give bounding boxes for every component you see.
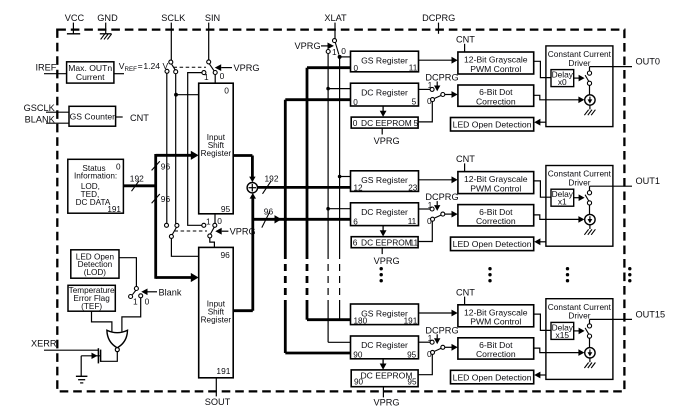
svg-text:95: 95 [407, 350, 417, 359]
svg-text:191: 191 [107, 205, 121, 214]
svg-text:Driver: Driver [568, 311, 590, 321]
svg-text:VPRG: VPRG [374, 256, 400, 266]
wire junction into shift register 1 (serial in) [176, 94, 199, 96]
wire DC EEPROM to DCPRG switch ch15 [418, 354, 432, 375]
wire S1 pole down with junction [174, 74, 178, 224]
svg-text:5: 5 [412, 98, 417, 107]
svg-text:191: 191 [216, 366, 230, 376]
pin SCLK [161, 13, 186, 60]
svg-text:LED Open Detection: LED Open Detection [453, 239, 532, 249]
wire CNT into PWM ch1 [464, 163, 466, 171]
wire VREF from Max OUTn Current [114, 73, 124, 75]
block 6-Bit Dot Correction ch1 [458, 205, 534, 226]
svg-text:Correction: Correction [476, 349, 516, 359]
wire bus vertical split [154, 154, 157, 279]
wire 192-bit bus from Status Information [123, 184, 155, 187]
svg-text:DC Register: DC Register [361, 87, 408, 97]
svg-text:96: 96 [264, 207, 274, 217]
switch S5 (XLAT / VPRG select) [326, 39, 341, 59]
wire shift register 1 bit-95 out to S4 top contact [214, 214, 216, 223]
svg-text:x15: x15 [556, 330, 570, 340]
wire CNT into PWM ch0 [464, 44, 466, 52]
svg-text:11: 11 [408, 217, 417, 226]
svg-text:PWM Control: PWM Control [470, 317, 521, 327]
svg-text:11: 11 [409, 238, 418, 248]
block 6-Bit Dot Correction ch0 [458, 85, 534, 106]
svg-text:XLAT: XLAT [324, 13, 347, 23]
wire DC Register to DCPRG switch ch1 [419, 208, 431, 210]
wire DC EEPROM to DCPRG switch ch1 [418, 221, 432, 242]
svg-text:x0: x0 [558, 77, 567, 87]
svg-text:90: 90 [354, 377, 364, 386]
wire S2 contact-1 bypass down to S4 [188, 73, 202, 226]
svg-text:1: 1 [133, 297, 138, 307]
arrow Blank [141, 289, 157, 296]
block Delay x0 ch0 [551, 70, 574, 87]
wire driver to LED Open Detection ch1 [534, 238, 546, 245]
wire shift register 2 output to adder [233, 193, 256, 311]
memory DC EEPROM ch15 [351, 370, 418, 387]
wire DC Register to DCPRG switch ch0 [419, 88, 431, 90]
block 6-Bit Dot Correction ch15 [458, 338, 534, 359]
switch output enable ch0 [585, 71, 592, 85]
wire CNT into PWM ch15 [464, 297, 466, 305]
svg-text:PWM Control: PWM Control [470, 183, 521, 193]
wire switch to current source ch15 [589, 338, 591, 347]
register U4 Input Shift Register (bits 96-191) [199, 247, 234, 377]
arrow DCPRG ch1 [434, 201, 440, 211]
register GS Register ch0 [351, 51, 419, 73]
pin DCPRG [422, 13, 455, 34]
chip boundary (dashed border) [57, 30, 624, 392]
svg-text:Correction: Correction [476, 96, 516, 106]
svg-text:IREF: IREF [35, 63, 56, 73]
svg-text:DCPRG: DCPRG [422, 13, 455, 23]
block Status Information register [68, 159, 124, 214]
wire S3 pole into shift register 2 [171, 239, 198, 257]
svg-text:DC EEPROM: DC EEPROM [361, 238, 412, 248]
wire Dot Correction to current source ch15 [534, 348, 585, 356]
switch S6 (Blank select) [129, 287, 143, 299]
switch DCPRG select ch1 [430, 207, 445, 221]
register DC Register ch0 [351, 83, 419, 107]
wire 96-bit branch into upper Input Shift Register [156, 151, 199, 160]
switch S1 (SCLK / VREF select) [165, 60, 178, 74]
svg-text:DC Register: DC Register [361, 340, 408, 350]
svg-text:(LOD): (LOD) [84, 268, 107, 277]
block LED Open Detection (LOD) [71, 250, 119, 278]
arrow DC Register to DC EEPROM ch15 [380, 359, 387, 370]
svg-text:0: 0 [354, 64, 359, 73]
svg-text:191: 191 [404, 317, 418, 326]
block Temperature Error Flag (TEF) [68, 285, 115, 311]
svg-text:LED Open Detection: LED Open Detection [453, 372, 532, 382]
svg-text:0: 0 [427, 349, 432, 359]
svg-text:CNT: CNT [456, 287, 475, 297]
svg-text:VPRG: VPRG [373, 398, 399, 408]
block LED Open Detection ch1 [451, 237, 534, 251]
svg-text:GND: GND [97, 13, 118, 23]
svg-text:GS Register: GS Register [361, 308, 408, 318]
wire GS Register to PWM ch15 [419, 310, 458, 317]
wire OUT1 output [590, 186, 633, 190]
svg-text:DC DATA: DC DATA [76, 198, 111, 207]
svg-text:96: 96 [161, 194, 171, 204]
svg-text:Information:: Information: [74, 171, 117, 180]
svg-text:VPRG: VPRG [374, 136, 400, 146]
wire VPRG stub ch1 [381, 248, 383, 254]
current source ch15 [585, 348, 595, 358]
svg-text:0: 0 [353, 118, 358, 128]
svg-text:Driver: Driver [568, 177, 590, 187]
block 12-Bit Grayscale PWM Control ch15 [458, 305, 534, 327]
svg-text:96: 96 [220, 250, 230, 260]
arrow Delay to switch ch1 [574, 194, 585, 201]
svg-text:0: 0 [341, 46, 346, 56]
svg-text:SIN: SIN [205, 13, 220, 23]
svg-text:0: 0 [145, 297, 150, 307]
bus tick 192 (status bus) [132, 181, 140, 191]
wire 96-bit DC data bus [253, 215, 351, 223]
wire CNT output of GS Counter [116, 116, 123, 118]
wire vertical GS data bus to channels 0 and 15 [307, 68, 351, 320]
dashed coupler S3-S4 [175, 230, 208, 232]
pin VPRG (bottom) [373, 387, 399, 408]
svg-text:SCLK: SCLK [161, 13, 186, 23]
wire shift register 1 output to adder [233, 156, 255, 183]
svg-text:1: 1 [204, 72, 209, 82]
svg-text:XERR: XERR [31, 339, 57, 349]
pin GSCLK [24, 103, 69, 113]
switch output enable ch15 [585, 324, 592, 338]
wire GS Register to PWM ch0 [419, 57, 458, 64]
wire PWM Control to Delay ch0 [534, 61, 551, 77]
ground (current source ch15) [584, 358, 595, 368]
svg-text:11: 11 [409, 64, 418, 73]
arrow DC Register to DC EEPROM ch1 [380, 226, 387, 237]
block 12-Bit Grayscale PWM Control ch1 [458, 172, 534, 194]
ground (XERR transistor) [76, 376, 88, 383]
wire 96-bit branch into lower Input Shift Register [156, 273, 199, 282]
switch S2 (SIN / VPRG select) [202, 60, 217, 75]
pin VCC [65, 13, 85, 34]
switch S3 (lower left) [165, 223, 179, 238]
svg-text:1: 1 [428, 333, 433, 343]
pin IREF [35, 63, 66, 74]
wire switch to current source ch0 [589, 85, 591, 94]
block U1 Max. OUTn Current [67, 62, 114, 83]
wire OUT0 output [590, 67, 633, 71]
wire Dot Correction to current source ch1 [534, 215, 585, 223]
svg-text:1: 1 [332, 47, 337, 57]
register DC Register ch15 [351, 336, 419, 360]
wire vertical DC data bus to channels 0 and 15 [285, 100, 350, 353]
arrow Delay to switch ch0 [574, 75, 585, 82]
arrow Delay to switch ch15 [574, 328, 585, 335]
svg-text:Correction: Correction [476, 216, 516, 226]
pin BLANK [25, 115, 69, 125]
pin SOUT [205, 378, 231, 407]
svg-text:VCC: VCC [65, 13, 85, 23]
svg-text:DC EEPROM: DC EEPROM [361, 118, 412, 128]
pin GND [97, 13, 118, 39]
wire GS Register to PWM ch1 [419, 176, 458, 183]
switch S4 (lower right / VPRG select) [202, 223, 217, 238]
transistor Q1 (open-drain XERR) [81, 348, 100, 363]
block Constant Current Driver ch1 [546, 166, 613, 247]
svg-text:CNT: CNT [456, 35, 475, 45]
svg-text:12: 12 [354, 184, 364, 193]
svg-text:1: 1 [206, 217, 211, 227]
svg-text:96: 96 [161, 161, 171, 171]
wire XLAT contact-1 net (DC latch line) [326, 54, 350, 343]
svg-text:0: 0 [224, 86, 229, 96]
svg-text:95: 95 [221, 204, 231, 214]
ground (current source ch1) [584, 225, 595, 235]
wire S2 pole into shift register 1 top [214, 75, 216, 84]
svg-text:Register: Register [201, 149, 232, 158]
svg-text:(TEF): (TEF) [81, 302, 102, 311]
switch output enable ch1 [585, 191, 592, 205]
block Delay x1 ch1 [551, 189, 574, 206]
svg-text:PWM Control: PWM Control [470, 64, 521, 74]
wire 192-bit GS data bus (adder output) [258, 185, 351, 189]
wire PWM Control to Delay ch15 [534, 314, 551, 330]
svg-text:OUT0: OUT0 [636, 57, 661, 67]
wire source to ground [80, 356, 82, 376]
svg-text:VPRG: VPRG [234, 63, 260, 73]
block Constant Current Driver ch15 [546, 299, 613, 380]
block Constant Current Driver ch0 [546, 46, 613, 127]
svg-text:5: 5 [414, 118, 419, 128]
wire PWM Control to Delay ch1 [534, 181, 551, 197]
current source ch0 [585, 95, 595, 105]
svg-text:6: 6 [353, 217, 358, 226]
svg-text:Current: Current [76, 72, 105, 82]
gate U5 NOR (error combine) [107, 330, 128, 351]
bus tick 96 (DC bus) [262, 212, 270, 228]
wire LOD output to switch S6 [119, 258, 136, 287]
dashed coupler S1-S2 [174, 66, 207, 68]
pin XLAT [324, 13, 347, 38]
wire TEF output to NOR gate input [92, 311, 112, 331]
wire switch to current source ch1 [589, 205, 591, 214]
register GS Register ch15 [351, 304, 419, 326]
arrow DC Register to DC EEPROM ch0 [380, 106, 387, 117]
wire XLAT pole net (GS latch line) [338, 57, 351, 320]
svg-text:1: 1 [428, 80, 433, 90]
arrow DCPRG ch15 [434, 334, 440, 344]
wire NOR output to transistor drain [101, 352, 118, 362]
wire DC Register to DCPRG switch ch15 [419, 341, 431, 343]
wire VREF contact down to S3 [166, 73, 168, 223]
svg-text:0: 0 [116, 163, 121, 172]
svg-text:GSCLK: GSCLK [24, 103, 56, 113]
adder (combiner) node [247, 183, 257, 193]
wire VPRG stub ch0 [381, 128, 383, 134]
bus tick 96 (upper branch) [152, 161, 160, 170]
svg-text:VREF = 1.24 V: VREF = 1.24 V [119, 61, 169, 73]
block Delay x15 ch15 [551, 322, 574, 339]
wire OUT15 output [590, 319, 633, 323]
memory DC EEPROM ch1 [351, 237, 418, 248]
bus tick 192 (GS bus) [263, 181, 271, 193]
svg-text:DC EEPROM: DC EEPROM [360, 371, 412, 381]
register GS Register ch1 [351, 171, 419, 193]
svg-text:180: 180 [354, 317, 368, 326]
svg-text:SOUT: SOUT [205, 397, 231, 407]
wire DCPRG pole to Dot Correction ch15 [445, 344, 458, 351]
svg-text:95: 95 [407, 377, 417, 386]
svg-text:x1: x1 [558, 197, 567, 207]
arrow VPRG (top selector) [215, 64, 232, 71]
wire DC EEPROM to DCPRG switch ch0 [418, 101, 432, 122]
svg-text:Register: Register [201, 316, 232, 325]
svg-text:VPRG: VPRG [295, 41, 321, 51]
wire driver to LED Open Detection ch15 [534, 372, 546, 379]
svg-text:OUT1: OUT1 [636, 176, 661, 186]
switch DCPRG select ch0 [430, 87, 445, 101]
register DC Register ch1 [351, 203, 419, 227]
svg-text:192: 192 [130, 174, 144, 184]
svg-text:90: 90 [353, 351, 363, 360]
svg-text:1: 1 [428, 200, 433, 210]
svg-text:GS Counter: GS Counter [70, 112, 116, 122]
wire DCPRG pole to Dot Correction ch0 [445, 91, 458, 98]
pin XERR [31, 339, 98, 351]
svg-text:OUT15: OUT15 [636, 309, 666, 319]
block LED Open Detection ch15 [451, 370, 534, 384]
svg-text:GS Register: GS Register [361, 175, 408, 185]
arrow VPRG (lower selector) [215, 228, 228, 235]
svg-text:192: 192 [265, 173, 279, 183]
wire DCPRG pole to Dot Correction ch1 [445, 211, 458, 218]
svg-text:0: 0 [427, 96, 432, 106]
current source ch1 [585, 214, 595, 224]
svg-text:CNT: CNT [456, 154, 475, 164]
svg-text:6: 6 [353, 238, 358, 248]
block U2 GS Counter [69, 106, 116, 126]
svg-text:DC Register: DC Register [361, 207, 408, 217]
svg-text:Blank: Blank [159, 288, 182, 298]
wire S4 pole into shift register 2 top [210, 238, 215, 247]
svg-text:0: 0 [353, 98, 358, 107]
svg-text:0: 0 [220, 71, 225, 81]
wire Dot Correction to current source ch0 [534, 95, 585, 103]
svg-text:0: 0 [427, 216, 432, 226]
svg-text:0: 0 [217, 216, 222, 226]
memory DC EEPROM ch0 [351, 117, 418, 128]
svg-text:LED Open Detection: LED Open Detection [453, 120, 532, 130]
ellipsis continuation dots [380, 267, 632, 282]
svg-text:CNT: CNT [130, 113, 149, 123]
bus tick 96 (lower branch) [152, 194, 160, 203]
switch DCPRG select ch15 [430, 340, 445, 354]
pin SIN [205, 13, 220, 60]
arrow DCPRG ch0 [434, 82, 440, 92]
block LED Open Detection ch0 [451, 118, 534, 132]
svg-text:23: 23 [408, 183, 418, 192]
block 12-Bit Grayscale PWM Control ch0 [458, 52, 534, 74]
register U3 Input Shift Register (bits 0-95) [199, 83, 234, 214]
svg-text:GS Register: GS Register [361, 56, 408, 66]
wire S6 contact-0 to NOR gate input [122, 298, 141, 332]
wire driver to LED Open Detection ch0 [534, 119, 546, 126]
arrow VPRG (XLAT selector) [321, 43, 334, 50]
svg-text:Driver: Driver [568, 58, 590, 68]
ground (current source ch0) [584, 105, 595, 115]
